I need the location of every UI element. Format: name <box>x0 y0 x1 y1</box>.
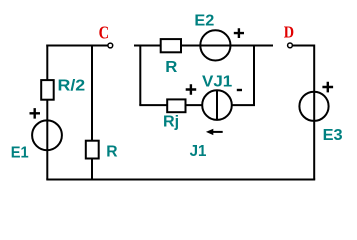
arrow: current direction J1 <box>206 129 223 135</box>
svg-text:E1: E1 <box>11 145 29 162</box>
plus sign of E3 <box>322 82 333 93</box>
source E3 <box>299 92 328 121</box>
wire: top-left horizontal from corner to terminal C <box>46 45 107 47</box>
wire: middle block left vertical <box>139 45 141 106</box>
svg-text:Rj: Rj <box>163 113 179 130</box>
wire: left vertical branch (through R/2 and E1) <box>46 45 48 180</box>
resistor R (middle block top) <box>161 39 181 52</box>
svg-text:R: R <box>165 59 178 76</box>
wire: from terminal D right and down to bottom bus <box>293 46 314 180</box>
source E1 <box>32 120 62 150</box>
source E2 <box>200 30 230 60</box>
plus sign of E2 <box>234 28 244 38</box>
wire: middle block inner bottom horizontal <box>139 104 255 106</box>
svg-text:E2: E2 <box>194 12 214 29</box>
svg-text:J1: J1 <box>190 143 207 160</box>
svg-text:C: C <box>99 22 110 42</box>
plus sign of E1 <box>30 108 41 119</box>
resistor R (left branch) <box>86 141 99 159</box>
svg-text:D: D <box>284 23 294 42</box>
terminal C <box>108 43 113 48</box>
terminal D <box>288 43 293 48</box>
current source J1 (circle VJ1) <box>202 90 232 120</box>
plus sign of VJ1 <box>186 84 197 95</box>
minus sign of VJ1 <box>237 89 242 91</box>
svg-text:R/2: R/2 <box>58 77 86 94</box>
wire: bottom horizontal bus <box>46 179 315 181</box>
wire: middle block top horizontal <box>134 45 273 47</box>
svg-text:R: R <box>106 143 118 160</box>
resistor R/2 <box>41 80 54 100</box>
wire: middle block right vertical <box>253 45 255 106</box>
svg-text:VJ1: VJ1 <box>202 74 232 91</box>
resistor Rj <box>167 99 185 112</box>
wire: middle-left vertical branch (through R) <box>91 45 93 180</box>
svg-text:E3: E3 <box>323 127 343 144</box>
